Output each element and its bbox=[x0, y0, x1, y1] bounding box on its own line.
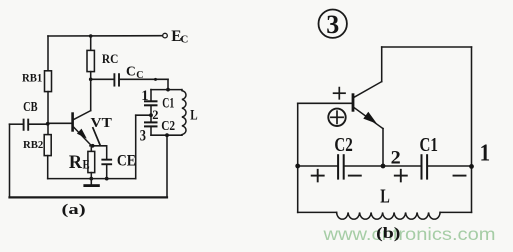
svg-text:2: 2 bbox=[391, 149, 401, 169]
svg-text:L: L bbox=[190, 108, 198, 124]
svg-text:RB2: RB2 bbox=[23, 139, 43, 151]
svg-text:3: 3 bbox=[140, 128, 146, 145]
svg-text:RB1: RB1 bbox=[22, 71, 42, 84]
svg-text:(a): (a) bbox=[62, 202, 86, 218]
svg-text:C: C bbox=[136, 70, 143, 81]
svg-text:VT: VT bbox=[91, 116, 113, 131]
svg-text:CE: CE bbox=[117, 153, 136, 170]
svg-text:RC: RC bbox=[102, 51, 119, 66]
svg-text:C: C bbox=[180, 33, 188, 45]
svg-text:CB: CB bbox=[23, 99, 37, 114]
svg-text:C1: C1 bbox=[162, 95, 174, 111]
svg-text:3: 3 bbox=[326, 10, 339, 39]
svg-text:C2: C2 bbox=[161, 119, 175, 134]
svg-text:(b): (b) bbox=[376, 225, 400, 242]
svg-text:R: R bbox=[69, 153, 83, 173]
svg-text:C2: C2 bbox=[334, 134, 352, 156]
svg-text:C: C bbox=[126, 64, 136, 79]
svg-text:C1: C1 bbox=[420, 134, 438, 156]
svg-text:E: E bbox=[83, 158, 90, 172]
svg-text:www.cntronics.com: www.cntronics.com bbox=[322, 224, 495, 244]
svg-text:L: L bbox=[380, 187, 390, 208]
svg-text:1: 1 bbox=[141, 88, 148, 104]
svg-text:2: 2 bbox=[152, 108, 158, 122]
svg-text:1: 1 bbox=[480, 140, 491, 166]
